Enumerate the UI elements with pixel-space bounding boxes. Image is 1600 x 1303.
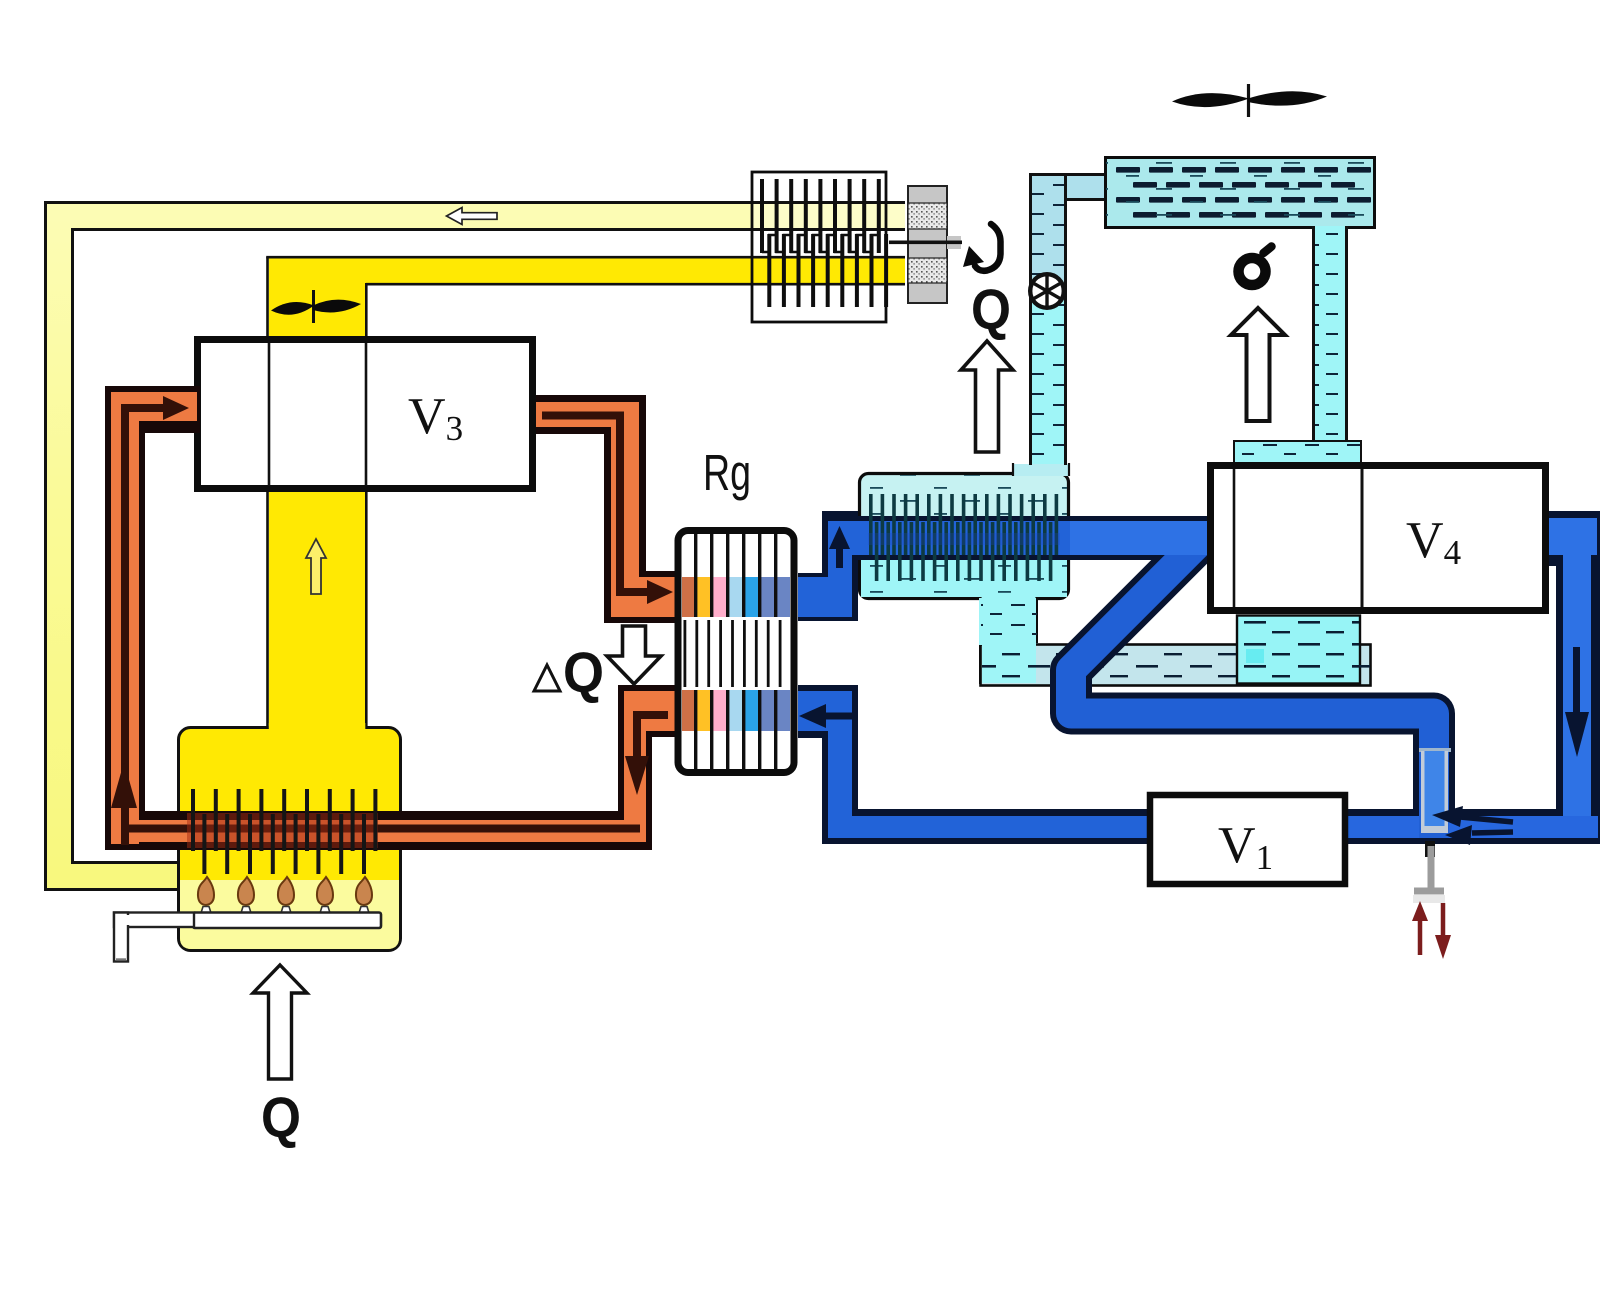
svg-text:Q: Q xyxy=(563,641,604,705)
svg-text:Q: Q xyxy=(261,1086,301,1150)
svg-text:Q: Q xyxy=(971,278,1011,342)
svg-text:Rg: Rg xyxy=(703,444,751,501)
